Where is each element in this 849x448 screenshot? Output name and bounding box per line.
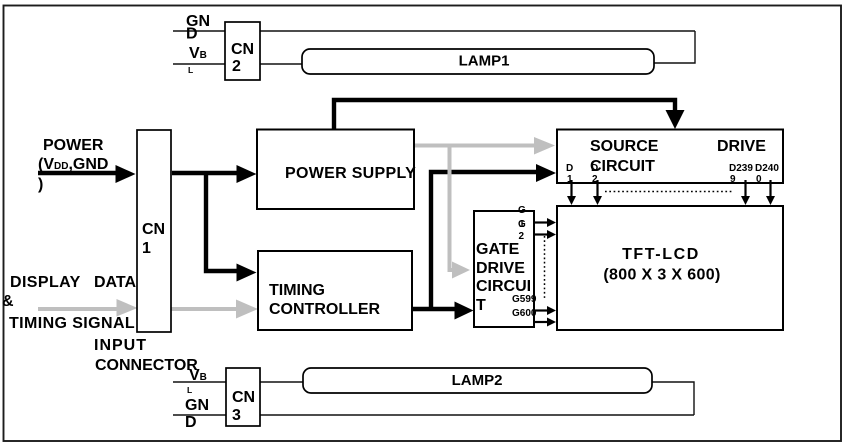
svg-text:POWER: POWER	[43, 137, 104, 154]
svg-text:G599: G599	[512, 294, 537, 305]
svg-text:SOURCE: SOURCE	[590, 138, 659, 155]
svg-text:DISPLAY: DISPLAY	[10, 274, 81, 291]
svg-text:CN: CN	[232, 389, 255, 406]
svg-text:1: 1	[567, 174, 573, 185]
svg-text:D240: D240	[755, 163, 779, 174]
svg-text:G: G	[518, 219, 526, 230]
svg-text:D: D	[566, 163, 573, 174]
svg-text:D: D	[591, 163, 598, 174]
svg-text:TFT-LCD: TFT-LCD	[622, 246, 700, 263]
svg-text:2: 2	[232, 58, 241, 75]
svg-text:VB: VB	[189, 45, 207, 62]
svg-text:L: L	[187, 385, 192, 395]
svg-text:LAMP1: LAMP1	[459, 53, 510, 70]
svg-text:LAMP2: LAMP2	[452, 372, 503, 389]
svg-text:GATE: GATE	[476, 241, 520, 258]
svg-text:(VDD,GND: (VDD,GND	[38, 156, 108, 173]
svg-text:VB: VB	[189, 367, 207, 384]
svg-text:(800 X 3 X 600): (800 X 3 X 600)	[603, 267, 720, 284]
svg-text:L: L	[188, 65, 193, 75]
svg-text:TIMING SIGNAL: TIMING SIGNAL	[9, 315, 135, 332]
svg-text:CIRCUI: CIRCUI	[476, 278, 531, 295]
svg-text:D: D	[186, 26, 198, 43]
svg-text:GN: GN	[185, 397, 209, 414]
svg-text:CONNECTOR: CONNECTOR	[95, 357, 198, 374]
svg-text:DRIVE: DRIVE	[717, 138, 766, 155]
svg-text:0: 0	[756, 174, 762, 185]
svg-text:G: G	[518, 205, 526, 216]
svg-text:G600: G600	[512, 308, 537, 319]
svg-text:): )	[38, 176, 43, 193]
svg-text:&: &	[2, 293, 14, 310]
svg-text:DATA: DATA	[94, 274, 137, 291]
svg-text:1: 1	[142, 240, 151, 257]
svg-text:2: 2	[519, 231, 525, 242]
svg-text:T: T	[476, 297, 486, 314]
svg-text:TIMING: TIMING	[269, 282, 325, 299]
svg-text:2: 2	[592, 174, 598, 185]
svg-text:CN: CN	[142, 221, 165, 238]
svg-text:CIRCUIT: CIRCUIT	[590, 158, 655, 175]
svg-text:CONTROLLER: CONTROLLER	[269, 301, 381, 318]
svg-text:D239: D239	[729, 163, 753, 174]
svg-text:INPUT: INPUT	[94, 337, 147, 354]
svg-text:POWER SUPPLY: POWER SUPPLY	[285, 165, 416, 182]
svg-text:3: 3	[232, 407, 241, 424]
svg-text:D: D	[185, 414, 197, 431]
svg-text:CN: CN	[231, 41, 254, 58]
svg-text:DRIVE: DRIVE	[476, 260, 525, 277]
svg-text:9: 9	[730, 174, 736, 185]
